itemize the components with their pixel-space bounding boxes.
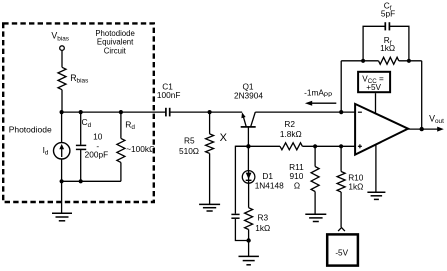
node dot Cd top: [79, 110, 83, 114]
wire D1 to R3: [248, 183, 250, 208]
capacitor (base bypass): [231, 213, 239, 215]
wire base node rail to op-amp + input: [235, 145, 280, 147]
wire C1 to R5 node and Q1 emitter: [170, 111, 242, 113]
wire Id to bottom rail: [61, 159, 63, 181]
wire R10 to -5V connector: [340, 192, 342, 227]
wire R3 to ground: [248, 230, 250, 257]
label Photodiode Equivalent Circuit: [95, 29, 134, 55]
svg-text:200pF: 200pF: [85, 150, 109, 160]
node dot Cf left: [361, 59, 365, 63]
node Vbias terminal: [60, 46, 65, 51]
resistor Rd: [117, 138, 125, 162]
ground under R5: [199, 204, 220, 211]
wire op-amp negative supply to ground: [375, 144, 377, 192]
annotation -1mApp current arrow: [305, 101, 336, 106]
wire feedback right leg: [421, 61, 423, 129]
wire R11 top lead: [314, 146, 316, 166]
svg-text:910: 910: [289, 171, 303, 181]
resistor R10: [337, 172, 345, 193]
node dot Cf right: [407, 59, 411, 63]
svg-text:R5: R5: [184, 135, 195, 145]
ground under photodiode box: [52, 213, 72, 221]
wire Cf branch: [363, 26, 385, 61]
resistor Rbias: [58, 67, 66, 89]
resistor R3: [245, 208, 253, 230]
resistor R11: [311, 167, 319, 192]
ground under R11: [305, 214, 326, 221]
svg-text:1kΩ: 1kΩ: [348, 181, 363, 191]
wire Cd bottom lead: [80, 150, 82, 181]
wire Vcc to op-amp: [375, 93, 377, 114]
diode D1 1N4148: [242, 171, 255, 184]
wire R11 to ground: [314, 192, 316, 215]
capacitor C1: [165, 108, 167, 117]
wire Rd bottom lead: [120, 162, 122, 181]
svg-text:+5V: +5V: [366, 83, 381, 92]
svg-text:R3: R3: [258, 213, 269, 223]
node dot Id bottom: [60, 179, 64, 183]
wire Vbias to Rbias: [61, 51, 63, 68]
ground under op-amp: [367, 192, 385, 199]
svg-text:510Ω: 510Ω: [179, 146, 199, 156]
wire R10 top lead: [340, 146, 342, 171]
svg-text:100nF: 100nF: [157, 90, 181, 100]
node dot feedback/inverting input: [339, 110, 343, 114]
node dot Q1 base junction: [246, 144, 250, 148]
current source Id: [54, 143, 70, 159]
node dot Rbias/Id junction: [60, 110, 64, 114]
svg-text:5pF: 5pF: [381, 8, 395, 18]
svg-text:X: X: [220, 132, 228, 144]
svg-text:1kΩ: 1kΩ: [255, 223, 270, 233]
svg-text:Photodiode: Photodiode: [9, 124, 52, 134]
svg-text:-5V: -5V: [335, 248, 348, 257]
wire top rail to Id: [61, 112, 63, 143]
node dot R11 top: [313, 144, 317, 148]
ground under R3: [239, 256, 259, 264]
wire Rf rail: [341, 60, 378, 62]
connector caret: [338, 228, 345, 232]
svg-text:Equivalent: Equivalent: [97, 37, 134, 46]
wire base node elbow down: [235, 146, 248, 213]
wire R5 to ground: [209, 153, 211, 204]
svg-text:1N4148: 1N4148: [255, 180, 284, 190]
supply box -5V: [327, 234, 358, 265]
capacitor Cf: [384, 22, 386, 30]
node dot R3 bottom: [246, 238, 250, 242]
wire R5 top lead: [209, 112, 211, 134]
wire Q1 collector to op-amp inverting input: [255, 111, 355, 113]
wire feedback left leg: [340, 61, 342, 112]
node dot Cd bottom: [79, 179, 83, 183]
capacitor Cd: [76, 144, 86, 146]
wire capacitor to R3 bottom node: [235, 219, 248, 241]
wire base node to D1: [247, 146, 249, 170]
wire bottom rail to ground: [61, 181, 63, 213]
node dot R10 top: [339, 144, 343, 148]
wire op-amp output: [408, 128, 438, 130]
svg-text:1.8kΩ: 1.8kΩ: [280, 129, 302, 139]
svg-text:10: 10: [93, 132, 103, 142]
node dot R5 top: [208, 110, 212, 114]
op-amp U1: [355, 104, 408, 155]
wire top rail (photodiode node to C1): [62, 111, 166, 113]
svg-text:~100kΩ: ~100kΩ: [126, 144, 155, 154]
wire Rbias to top rail: [61, 90, 63, 112]
node dot Rd top: [119, 110, 123, 114]
wire Rd top lead: [120, 112, 122, 138]
wire bottom rail: [62, 180, 121, 182]
svg-text:R2: R2: [284, 119, 295, 129]
svg-text:Circuit: Circuit: [104, 46, 127, 55]
svg-text:2N3904: 2N3904: [234, 90, 263, 100]
output arrow: [437, 127, 444, 132]
transistor Q1 2N3904: [241, 112, 256, 146]
supply box Vcc = +5V: [358, 72, 390, 92]
svg-text:Ω: Ω: [294, 180, 300, 190]
resistor R5: [206, 134, 214, 154]
node dot output: [420, 127, 424, 131]
resistor Rf: [379, 57, 399, 64]
photodiode equivalent circuit dashed box: [3, 23, 154, 202]
svg-text:1kΩ: 1kΩ: [380, 43, 395, 53]
resistor R2: [280, 143, 302, 150]
wire Cd top lead: [80, 112, 82, 145]
